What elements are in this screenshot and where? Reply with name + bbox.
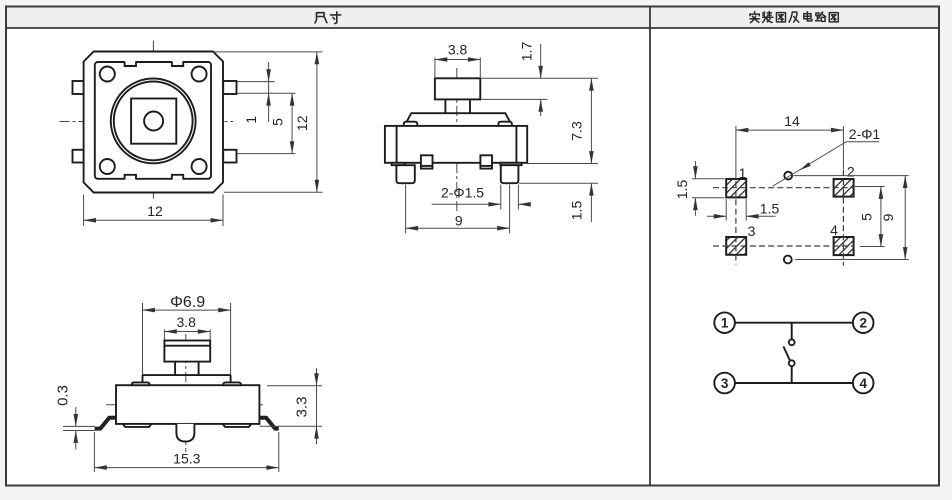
middle tab right xyxy=(480,155,492,168)
column centerline pads 2-4 xyxy=(842,170,844,266)
gull-wing leg right xyxy=(259,418,278,429)
body bottom ext line xyxy=(523,163,598,165)
corner hole bottom-right xyxy=(192,159,207,174)
wire 3-4 xyxy=(735,382,853,384)
dim 12 right: ext lines xyxy=(214,51,323,53)
header title left: 尺寸 xyxy=(315,12,341,24)
dim 12 bottom: extension lines xyxy=(83,195,85,227)
contact bar right xyxy=(223,424,252,427)
header bottom rule xyxy=(6,27,939,29)
cap bottom ext line xyxy=(482,98,548,100)
corner hole top-left xyxy=(100,67,115,82)
svg-text:2-Φ1.5: 2-Φ1.5 xyxy=(441,185,484,201)
right tab ext lines xyxy=(237,81,275,83)
svg-text:3: 3 xyxy=(721,376,729,391)
terminal 1 xyxy=(714,312,735,333)
button cap xyxy=(435,78,480,99)
dim 1.5 horizontal: ext lines xyxy=(725,199,727,221)
notch bottom-left of cover xyxy=(125,175,136,180)
dim 1.5 vertical: arrows outside xyxy=(694,161,696,179)
notch top-left of cover xyxy=(125,61,136,66)
label 2-phi1 leader xyxy=(773,142,879,186)
column centerline pads 1-3 xyxy=(735,181,737,265)
dim 15.3: dimension line xyxy=(94,467,278,469)
terminal 2 xyxy=(853,312,874,333)
row centerline 2 xyxy=(713,245,854,247)
center locating peg xyxy=(176,424,194,442)
dim 15.3: ext lines xyxy=(93,432,95,472)
dim 9: dimension line xyxy=(904,176,906,260)
body octagon outline xyxy=(84,52,223,193)
terminal 4 xyxy=(853,373,874,394)
corner hole top-right xyxy=(192,67,207,82)
cap step line xyxy=(164,345,210,347)
column divider xyxy=(649,7,651,486)
dim 2-phi1.5: leg edge ext lines xyxy=(500,185,502,210)
centerline horizontal xyxy=(106,404,263,406)
svg-text:7.3: 7.3 xyxy=(569,121,585,141)
dim 1.5 vertical: ext lines xyxy=(692,178,725,180)
dim phi6.9: boss edges / ext lines xyxy=(142,303,144,375)
centerline horizontal xyxy=(60,121,234,123)
cover lid xyxy=(407,113,510,126)
svg-text:1: 1 xyxy=(243,116,259,124)
centerline vertical xyxy=(185,334,187,452)
rivet bump right xyxy=(223,382,241,385)
stem boss inner circle xyxy=(114,82,193,161)
middle tab left xyxy=(421,155,433,168)
body wing line left xyxy=(396,126,398,163)
contact bar left xyxy=(123,424,152,427)
hole circle top xyxy=(784,172,792,180)
notch top-right of cover xyxy=(172,61,183,66)
base body xyxy=(116,385,259,424)
dim 5: dimension line xyxy=(291,93,293,153)
dim 3.3: arrows outside xyxy=(316,368,318,386)
svg-text:1: 1 xyxy=(739,165,747,181)
svg-text:3.8: 3.8 xyxy=(176,314,196,330)
dim 3.8: dimension line xyxy=(435,59,480,61)
switch contact top xyxy=(789,339,795,345)
pad 4 xyxy=(834,237,854,255)
dim 3.8: dimension line xyxy=(164,331,210,333)
dim 12 bottom: dimension line xyxy=(84,219,223,221)
switch stub bottom xyxy=(791,366,793,383)
dim 1.7: arrows xyxy=(540,44,542,78)
svg-text:1: 1 xyxy=(721,316,729,331)
notch bottom-right of cover xyxy=(172,175,183,180)
leader arrowhead xyxy=(800,162,811,170)
svg-text:3: 3 xyxy=(748,223,756,239)
svg-text:2: 2 xyxy=(847,163,855,179)
side tab bottom-left xyxy=(73,150,84,163)
stem sides xyxy=(174,362,176,376)
svg-text:1.5: 1.5 xyxy=(760,201,780,217)
svg-text:9: 9 xyxy=(880,213,896,221)
terminal 3 xyxy=(714,373,735,394)
svg-text:12: 12 xyxy=(147,203,163,219)
dim 12 right: dimension line xyxy=(316,52,318,192)
header title right: 安装图及电路图 xyxy=(750,12,839,23)
svg-text:3.3: 3.3 xyxy=(294,397,311,418)
base body xyxy=(385,126,527,163)
svg-text:4: 4 xyxy=(830,222,838,238)
dim 9: ext lines xyxy=(794,175,909,177)
dim 7.3: dimension line xyxy=(590,78,592,163)
svg-text:2-Φ1: 2-Φ1 xyxy=(849,126,881,142)
dim 5: ext lines xyxy=(855,186,885,188)
dim 2-phi1.5: dimension line with converging arrows xyxy=(432,203,501,205)
pad 1 xyxy=(726,179,746,197)
dim 9: dimension line xyxy=(406,227,510,229)
dim 3.8: ext lines xyxy=(434,58,436,78)
corner hole bottom-left xyxy=(100,159,115,174)
actuator square xyxy=(131,99,176,144)
actuator center circle xyxy=(144,112,163,131)
table header fill xyxy=(6,7,939,28)
svg-text:1.5: 1.5 xyxy=(569,201,585,221)
wire 1-2 xyxy=(735,322,853,324)
switch contact bottom xyxy=(789,360,795,366)
leg right xyxy=(501,165,519,183)
dim 14: dimension line xyxy=(736,129,844,131)
dim 1.5: arrow and tail xyxy=(590,183,592,196)
row centerline 1 xyxy=(713,187,854,189)
svg-text:15.3: 15.3 xyxy=(173,450,200,466)
rivet bump left xyxy=(132,382,150,385)
dim 14: ext lines xyxy=(735,126,737,179)
svg-text:5: 5 xyxy=(269,118,285,126)
centerline vertical xyxy=(152,41,154,199)
side tab top-right xyxy=(223,81,236,94)
dim 5: dimension line xyxy=(880,187,882,247)
switch arm xyxy=(783,346,790,360)
shoulder right xyxy=(500,163,521,165)
dim 3.8: ext lines xyxy=(163,330,165,341)
dim 3.3: ext lines xyxy=(267,385,322,387)
button stem sides xyxy=(444,99,446,113)
svg-text:0.3: 0.3 xyxy=(55,385,72,406)
dim 0.3: ext lines xyxy=(63,425,95,427)
boss flange line xyxy=(143,374,231,376)
dim 9: ext lines from leg centers xyxy=(405,185,407,234)
switch stub top xyxy=(791,323,793,340)
hole circle bottom xyxy=(784,256,792,264)
leg bottom ext line xyxy=(519,182,598,184)
svg-text:Φ6.9: Φ6.9 xyxy=(170,294,205,311)
pad 3 xyxy=(726,237,746,255)
dim 1.5 horizontal: arrows outside xyxy=(707,215,726,217)
dim 0.3: arrows outside xyxy=(75,407,77,426)
svg-text:9: 9 xyxy=(455,212,463,228)
shoulder left xyxy=(392,163,405,165)
svg-text:4: 4 xyxy=(859,376,867,391)
inner cover square xyxy=(95,62,211,179)
svg-text:5: 5 xyxy=(859,213,875,221)
svg-text:12: 12 xyxy=(294,115,310,131)
svg-text:1.7: 1.7 xyxy=(519,42,535,62)
stem boss outer circle xyxy=(111,79,196,164)
lid rivet bump left xyxy=(404,122,418,126)
side tab bottom-right xyxy=(223,150,236,163)
svg-text:2: 2 xyxy=(859,316,867,331)
side tab top-left xyxy=(73,81,84,94)
leg left xyxy=(396,165,414,183)
gull-wing leg left xyxy=(95,418,116,429)
svg-text:14: 14 xyxy=(784,113,800,129)
button cap xyxy=(164,341,210,362)
pad 2 xyxy=(834,179,854,197)
dim phi6.9: dimension line xyxy=(143,309,231,311)
dim 1: arrows outside xyxy=(268,62,270,82)
body wing line right xyxy=(515,126,517,163)
centerline vertical xyxy=(456,68,458,213)
cap top ext line xyxy=(482,77,599,79)
lid rivet bump right xyxy=(498,122,512,126)
svg-text:3.8: 3.8 xyxy=(448,42,468,58)
svg-text:1.5: 1.5 xyxy=(674,180,690,200)
